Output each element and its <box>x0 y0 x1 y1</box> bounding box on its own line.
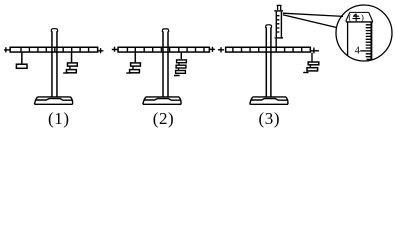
balance 2 left hook between weights <box>132 67 134 70</box>
balance 1 right string <box>71 53 73 63</box>
balance 2 pole cap <box>162 29 168 32</box>
balance 3 right weight W5b <box>307 68 318 71</box>
balance 2 pole right line <box>167 31 169 96</box>
balance 3 beam dividers <box>233 47 302 52</box>
balance 1 pole left line <box>51 31 53 96</box>
inset unit glyph niu (newton) <box>352 14 360 21</box>
balance 2 right stack bottom tick <box>174 75 180 77</box>
balance 1 pole right line <box>56 31 58 96</box>
inset scale left line <box>347 22 349 56</box>
balance 3 spring scale hook rod <box>275 39 277 52</box>
balance 2 beam outline <box>118 47 209 52</box>
balance 2 left nut <box>112 47 118 52</box>
balance 2 right hook b <box>178 68 180 70</box>
magnifier circle <box>336 5 392 61</box>
balance 2 left stack bottom tick <box>126 72 131 74</box>
balance 2 right weight W4b <box>176 65 186 68</box>
inset scale right line <box>370 22 372 60</box>
balance 3 right stack bottom tick <box>303 72 308 74</box>
balance 3 left nut <box>218 47 224 52</box>
balance 2 left weight W3a <box>131 63 141 66</box>
balance 3 right weight W5a <box>308 62 319 65</box>
balance 2 right nut <box>210 47 215 52</box>
balance 1 beam dividers <box>21 47 89 52</box>
balance 3 right hook between weights <box>309 65 311 67</box>
svg-text:(3): (3) <box>258 109 280 128</box>
balance 2 right string <box>180 53 182 60</box>
balance 1 right weight W2b <box>67 70 77 73</box>
balance 2 pole left line <box>162 31 164 96</box>
balance 1 right weight W2a <box>68 63 78 66</box>
svg-text:): ) <box>361 12 364 22</box>
inset scale top bar <box>346 21 373 23</box>
balance 3 spring scale top plate <box>274 10 283 12</box>
balance 2 base <box>143 97 181 104</box>
inset housing left slant <box>346 12 350 21</box>
inset major tick at 4 <box>360 50 370 52</box>
balance 3 pole left line <box>265 27 267 96</box>
balance 2 left string <box>134 53 136 63</box>
balance 3 spring scale ring <box>277 5 282 10</box>
balance 2 right weight W4a <box>177 60 187 63</box>
balance 2 left weight W3b <box>130 70 140 73</box>
balance 3 right nut <box>311 48 319 54</box>
balance 3 spring scale body <box>276 12 281 38</box>
leader line lower <box>283 15 337 28</box>
balance 2 right weight W4c <box>176 71 186 74</box>
svg-text:(: ( <box>348 12 351 22</box>
balance 1 left string <box>21 53 23 64</box>
balance 1 beam outline <box>10 47 98 52</box>
balance 3 spring scale graduations <box>277 16 280 32</box>
inset housing top edge <box>350 11 369 13</box>
balance 1 left nut <box>4 47 10 52</box>
balance 3 base <box>250 97 288 104</box>
balance 3 pole right line <box>270 27 272 96</box>
balance 3 right string <box>311 53 313 62</box>
balance 1 left weight W1 <box>16 64 27 68</box>
balance 2 right hook a <box>178 63 180 65</box>
leader line upper <box>283 13 343 16</box>
balance 1 right hook between weights <box>69 67 71 70</box>
balance 1 base <box>34 97 72 104</box>
balance 2 beam dividers <box>127 47 204 52</box>
balance 1 pole cap <box>51 29 57 32</box>
inset minor ticks <box>366 25 371 60</box>
svg-text:(1): (1) <box>48 109 70 128</box>
balance 3 pole cap <box>266 25 272 28</box>
svg-text:4: 4 <box>355 45 361 56</box>
balance 1 right nut <box>98 48 103 53</box>
balance 3 spring scale bottom plate <box>275 37 284 39</box>
balance 1 right stack bottom tick <box>63 72 68 74</box>
inset housing right slant <box>369 12 373 21</box>
svg-text:(2): (2) <box>153 109 175 128</box>
balance 3 beam outline <box>226 47 311 52</box>
